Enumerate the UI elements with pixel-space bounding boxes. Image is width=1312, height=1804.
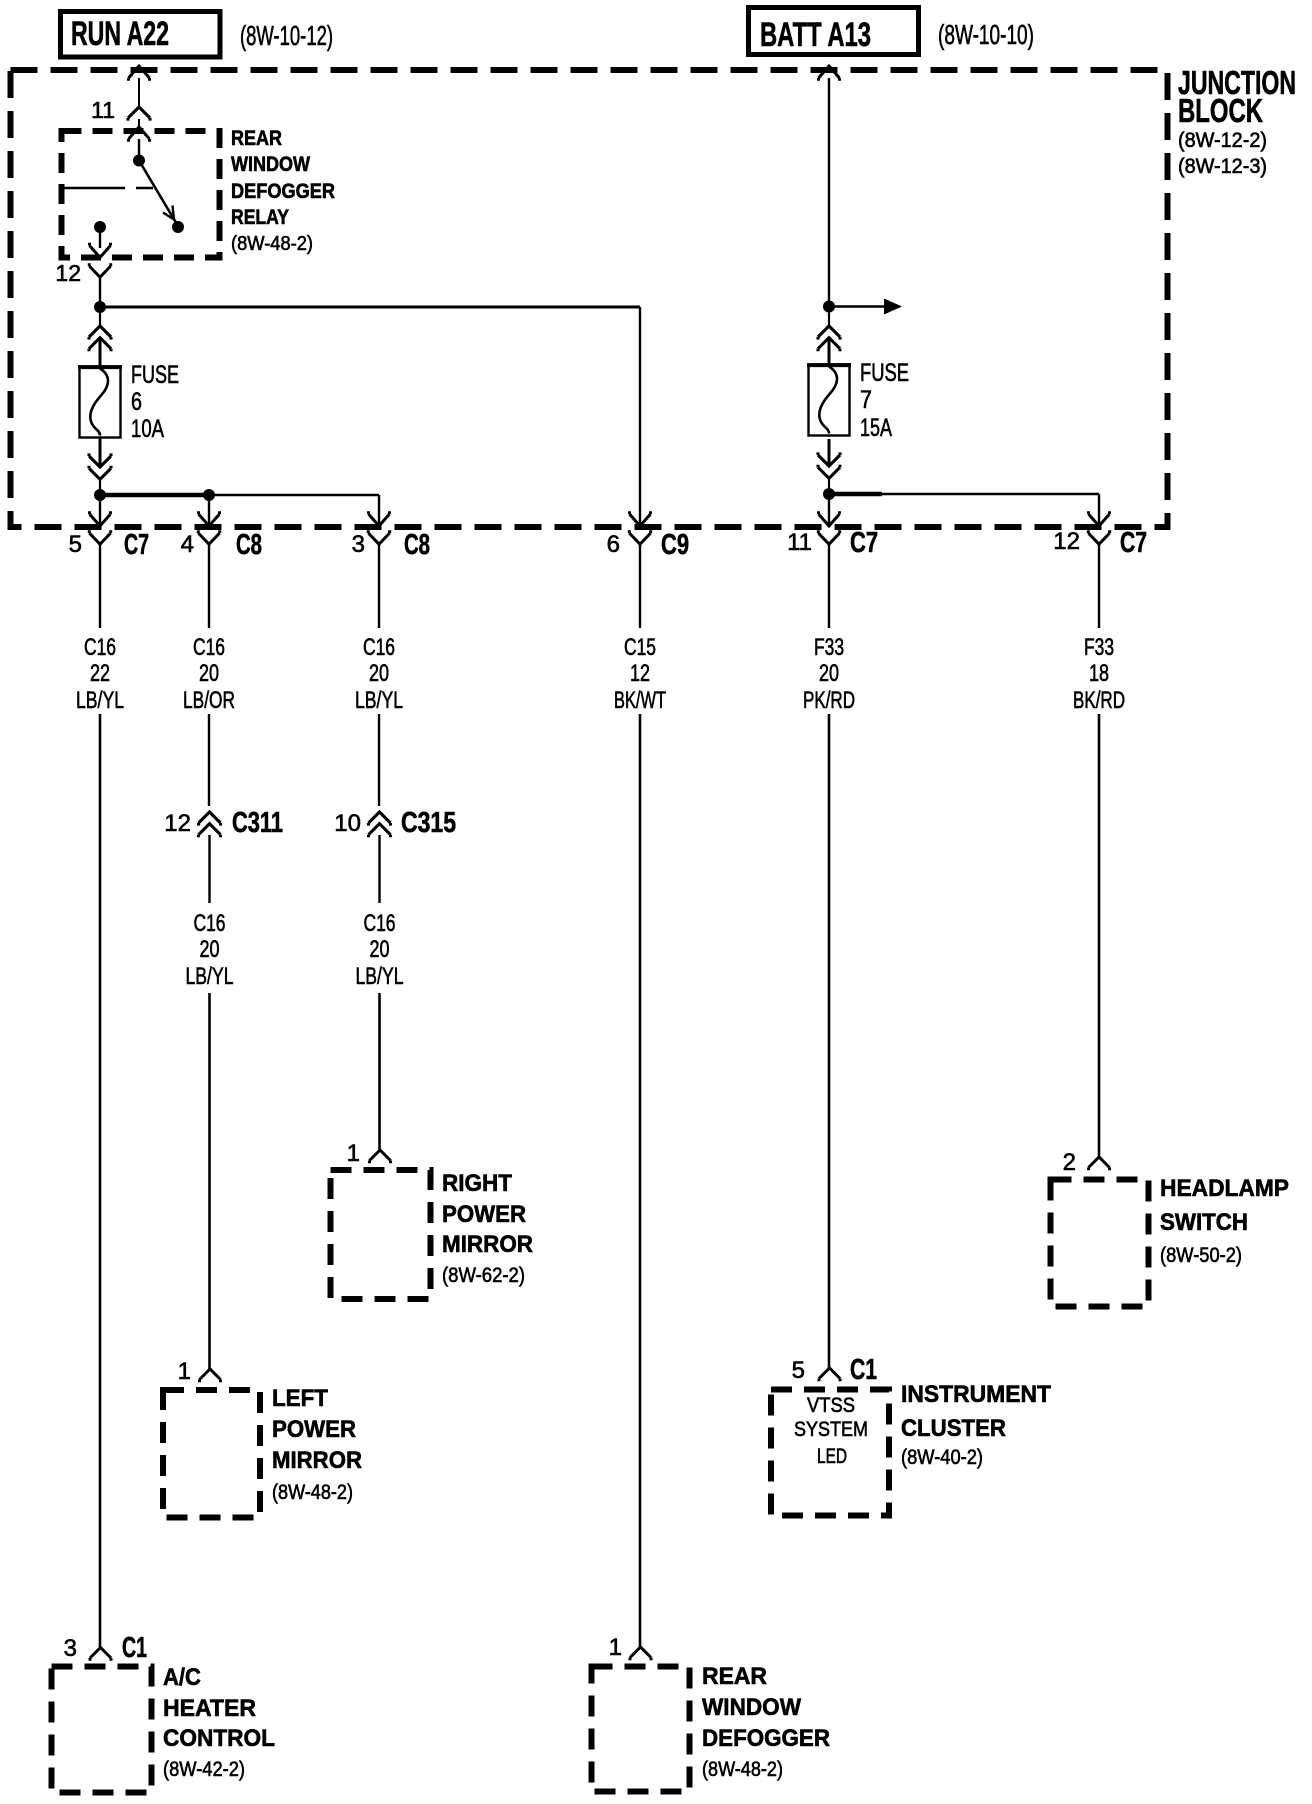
- svg-text:CONTROL: CONTROL: [163, 1725, 275, 1752]
- svg-text:BK/WT: BK/WT: [614, 687, 666, 714]
- svg-text:REAR: REAR: [231, 127, 282, 150]
- svg-text:(8W-48-2): (8W-48-2): [231, 233, 313, 255]
- svg-text:MIRROR: MIRROR: [442, 1231, 533, 1258]
- svg-text:SYSTEM: SYSTEM: [794, 1418, 868, 1441]
- svg-text:20: 20: [370, 936, 390, 963]
- svg-text:F33: F33: [1084, 634, 1114, 661]
- svg-text:F33: F33: [814, 634, 844, 661]
- svg-text:4: 4: [181, 531, 194, 558]
- svg-text:SWITCH: SWITCH: [1160, 1209, 1248, 1236]
- svg-text:3: 3: [352, 531, 365, 558]
- svg-text:CLUSTER: CLUSTER: [901, 1415, 1006, 1442]
- svg-text:LB/YL: LB/YL: [76, 687, 124, 714]
- svg-text:LB/YL: LB/YL: [356, 963, 404, 990]
- svg-text:RUN A22: RUN A22: [71, 15, 169, 53]
- svg-text:2: 2: [1063, 1149, 1076, 1176]
- svg-text:12: 12: [164, 810, 191, 837]
- svg-text:PK/RD: PK/RD: [803, 687, 855, 714]
- svg-text:22: 22: [90, 660, 110, 687]
- svg-text:7: 7: [860, 386, 872, 414]
- svg-text:C16: C16: [84, 634, 116, 661]
- svg-text:BLOCK: BLOCK: [1178, 92, 1263, 129]
- svg-text:MIRROR: MIRROR: [272, 1447, 362, 1474]
- svg-text:15A: 15A: [860, 414, 892, 442]
- svg-text:WINDOW: WINDOW: [231, 153, 310, 176]
- svg-text:BATT A13: BATT A13: [760, 16, 871, 54]
- svg-text:(8W-50-2): (8W-50-2): [1160, 1244, 1242, 1267]
- svg-text:(8W-10-10): (8W-10-10): [938, 19, 1034, 50]
- svg-text:HEATER: HEATER: [163, 1695, 256, 1722]
- svg-text:C16: C16: [364, 910, 396, 937]
- svg-text:18: 18: [1089, 660, 1109, 687]
- svg-text:12: 12: [1053, 528, 1080, 555]
- svg-text:20: 20: [819, 660, 839, 687]
- svg-text:6: 6: [607, 531, 620, 558]
- svg-text:(8W-48-2): (8W-48-2): [702, 1758, 783, 1781]
- svg-text:BK/RD: BK/RD: [1073, 687, 1125, 714]
- svg-text:RELAY: RELAY: [231, 206, 289, 229]
- svg-text:C16: C16: [194, 910, 226, 937]
- svg-text:1: 1: [178, 1358, 191, 1385]
- svg-text:5: 5: [69, 531, 82, 558]
- svg-text:POWER: POWER: [442, 1201, 526, 1228]
- svg-text:C9: C9: [661, 529, 689, 561]
- svg-text:DEFOGGER: DEFOGGER: [702, 1725, 830, 1752]
- svg-text:20: 20: [369, 660, 389, 687]
- svg-text:LED: LED: [817, 1445, 847, 1468]
- svg-text:C315: C315: [401, 807, 456, 839]
- svg-text:11: 11: [91, 97, 115, 123]
- svg-text:C7: C7: [124, 529, 149, 561]
- svg-text:(8W-10-12): (8W-10-12): [240, 20, 333, 51]
- svg-text:HEADLAMP: HEADLAMP: [1160, 1175, 1289, 1202]
- svg-text:RIGHT: RIGHT: [442, 1170, 512, 1197]
- svg-text:(8W-12-2): (8W-12-2): [1178, 129, 1267, 152]
- svg-text:20: 20: [199, 660, 219, 687]
- svg-text:12: 12: [630, 660, 650, 687]
- svg-text:REAR: REAR: [702, 1663, 767, 1690]
- svg-text:6: 6: [131, 388, 142, 416]
- svg-text:11: 11: [787, 529, 812, 556]
- svg-text:(8W-48-2): (8W-48-2): [272, 1481, 353, 1504]
- svg-text:C16: C16: [363, 634, 395, 661]
- svg-text:WINDOW: WINDOW: [702, 1694, 801, 1721]
- svg-text:LB/OR: LB/OR: [183, 687, 235, 714]
- svg-text:C8: C8: [236, 529, 262, 561]
- svg-text:10: 10: [334, 810, 361, 837]
- svg-text:(8W-40-2): (8W-40-2): [901, 1446, 983, 1469]
- svg-text:LB/YL: LB/YL: [355, 687, 403, 714]
- svg-text:12: 12: [55, 260, 81, 286]
- svg-text:POWER: POWER: [272, 1416, 356, 1443]
- svg-text:A/C: A/C: [163, 1664, 201, 1691]
- svg-text:C1: C1: [122, 1632, 147, 1664]
- svg-text:FUSE: FUSE: [131, 361, 179, 389]
- svg-text:C16: C16: [193, 634, 225, 661]
- svg-text:20: 20: [200, 936, 220, 963]
- svg-text:1: 1: [609, 1634, 622, 1661]
- svg-text:3: 3: [64, 1635, 77, 1662]
- svg-text:INSTRUMENT: INSTRUMENT: [901, 1381, 1051, 1408]
- svg-text:5: 5: [792, 1357, 805, 1384]
- svg-text:C8: C8: [404, 529, 430, 561]
- svg-text:LB/YL: LB/YL: [186, 963, 234, 990]
- svg-text:LEFT: LEFT: [272, 1385, 328, 1412]
- svg-text:DEFOGGER: DEFOGGER: [231, 180, 335, 203]
- svg-text:(8W-62-2): (8W-62-2): [442, 1264, 525, 1287]
- svg-text:VTSS: VTSS: [807, 1394, 855, 1417]
- svg-text:C1: C1: [850, 1354, 877, 1386]
- svg-text:(8W-12-3): (8W-12-3): [1178, 155, 1267, 178]
- svg-text:(8W-42-2): (8W-42-2): [163, 1758, 245, 1781]
- svg-text:10A: 10A: [131, 415, 164, 443]
- svg-text:C311: C311: [232, 807, 283, 839]
- svg-text:C7: C7: [850, 527, 878, 559]
- svg-text:C15: C15: [624, 634, 656, 661]
- svg-text:FUSE: FUSE: [860, 359, 909, 387]
- svg-text:1: 1: [347, 1140, 360, 1167]
- svg-text:C7: C7: [1120, 527, 1147, 559]
